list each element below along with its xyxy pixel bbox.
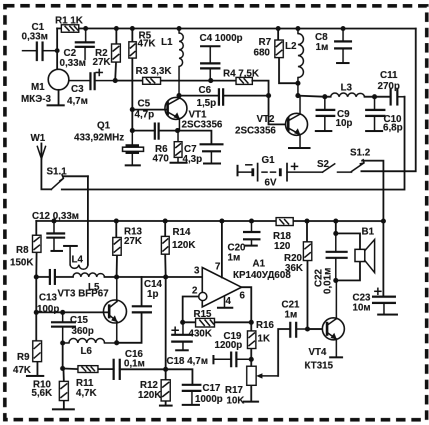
svg-text:L4: L4: [71, 254, 83, 265]
svg-text:470: 470: [153, 153, 170, 164]
wire VT2 collector to filter: [298, 96, 391, 97]
svg-text:R14: R14: [172, 227, 191, 238]
svg-text:1м: 1м: [284, 310, 297, 321]
svg-text:M1: M1: [31, 82, 45, 93]
inductor L6: [63, 338, 117, 356]
resistor R8 150K: [10, 221, 41, 277]
svg-text:47K: 47K: [138, 39, 156, 50]
capacitor C12 0,33м: [32, 211, 79, 251]
node R10/R11 junction: [60, 366, 65, 371]
svg-text:2: 2: [192, 285, 198, 296]
svg-text:R9: R9: [17, 352, 30, 363]
svg-text:R17: R17: [225, 385, 244, 396]
capacitor C2 0,33м: [60, 28, 95, 69]
svg-text:100p: 100p: [37, 304, 59, 315]
wire VT2 base: [269, 96, 288, 125]
resistor R15 430K: [183, 309, 252, 339]
node C12 rail junction: [51, 218, 56, 223]
svg-text:C3: C3: [71, 84, 84, 95]
node C3/R2/R3 junction: [113, 78, 118, 83]
svg-text:0,33м: 0,33м: [60, 58, 86, 69]
resistor R7 680: [254, 29, 298, 84]
capacitor C13 100p: [37, 269, 59, 315]
resistor R1 1K: [55, 15, 83, 32]
svg-text:120K: 120K: [172, 240, 195, 251]
svg-text:R8: R8: [16, 245, 29, 256]
svg-text:10K: 10K: [226, 396, 244, 407]
inductor L1: [161, 28, 183, 95]
resistor R13 27K: [113, 221, 143, 277]
battery G1 6V: [238, 155, 323, 189]
capacitor C15 360p: [51, 312, 94, 343]
node VT1 emitter / R6 junction: [175, 128, 180, 133]
wire C15 rail down: [62, 343, 64, 369]
inductor L3: [331, 83, 365, 97]
switch S1.2: [350, 148, 383, 221]
inductor L5: [73, 273, 105, 293]
svg-text:L3: L3: [341, 83, 353, 94]
capacitor C16 0,1м: [114, 349, 145, 380]
svg-text:G1: G1: [262, 155, 276, 166]
svg-text:C6: C6: [199, 85, 212, 96]
svg-text:1p: 1p: [147, 289, 158, 300]
capacitor C20 1м: [227, 221, 260, 264]
resistor R2 27K: [93, 28, 121, 79]
node R14/pin3 junction: [163, 274, 168, 279]
wire RX supply rail: [36, 220, 383, 222]
resistor R11 4,7K: [76, 366, 98, 399]
svg-text:0,01м: 0,01м: [322, 268, 333, 294]
node R20 rail junction: [304, 218, 309, 223]
capacitor C8 1м: [315, 29, 352, 64]
wire VT3 base: [36, 277, 109, 312]
svg-text:36K: 36K: [285, 263, 303, 274]
svg-text:27K: 27K: [93, 57, 111, 68]
crystal Q1 433,92MHz: [74, 120, 144, 165]
node C1/R1 junction: [55, 48, 60, 53]
svg-text:S1.2: S1.2: [350, 148, 371, 159]
node VT4 collector junction: [333, 278, 338, 283]
capacitor C10 6,8p: [365, 97, 403, 134]
node VT2 base junction: [266, 93, 271, 98]
svg-text:R7: R7: [259, 37, 272, 48]
capacitor C19 1200p: [213, 331, 251, 367]
wire input line y277: [36, 276, 202, 278]
svg-text:4,7м: 4,7м: [67, 96, 88, 107]
svg-text:R4 7,5K: R4 7,5K: [223, 69, 259, 80]
svg-text:1м: 1м: [316, 42, 329, 53]
node C10 junction: [372, 94, 377, 99]
svg-text:VT2: VT2: [257, 114, 276, 125]
svg-text:270p: 270p: [378, 81, 400, 92]
svg-text:R1 1K: R1 1K: [55, 15, 83, 26]
switch S2: [317, 159, 352, 172]
svg-text:1000p: 1000p: [195, 394, 223, 405]
svg-text:C5: C5: [138, 99, 151, 110]
capacitor C1 0,33м: [22, 22, 58, 61]
capacitor C7 4,3p: [183, 144, 224, 165]
svg-text:10м: 10м: [352, 303, 370, 314]
svg-text:680: 680: [254, 48, 271, 59]
transistor VT1 2SC3356: [165, 96, 223, 131]
node R14 rail junction: [163, 218, 168, 223]
svg-text:1200p: 1200p: [214, 340, 242, 351]
speaker B1: [336, 226, 375, 280]
svg-text:4,3p: 4,3p: [183, 154, 203, 165]
capacitor C11 270p: [378, 70, 405, 106]
transistor VT2 2SC3356: [235, 96, 311, 148]
node VT2 collector junction: [295, 93, 300, 98]
node R5 rail junction: [130, 26, 135, 31]
capacitor C17 1000p: [182, 383, 223, 405]
resistor R14 120K: [161, 221, 195, 369]
wire antenna line to L4: [87, 176, 89, 264]
resistor R3 3,3K: [136, 66, 172, 85]
op-amp A1 КР140УД608: [183, 221, 292, 322]
svg-text:4,7K: 4,7K: [76, 388, 97, 399]
svg-text:L6: L6: [80, 346, 92, 357]
svg-text:C4 1000p: C4 1000p: [200, 33, 243, 44]
node pin7 rail junction: [219, 218, 224, 223]
wire top rail: [57, 27, 416, 29]
wire VT1 emitter line: [132, 131, 211, 144]
capacitor C22 0,01м: [313, 221, 347, 294]
svg-text:A1: A1: [252, 259, 265, 270]
svg-text:КР140УД608: КР140УД608: [233, 270, 291, 281]
svg-text:C11: C11: [380, 70, 398, 81]
node VT1 base / R5 junction: [130, 107, 135, 112]
node VT3 collector junction: [114, 274, 119, 279]
svg-text:R16: R16: [256, 320, 275, 331]
capacitor C14 1p: [117, 277, 163, 343]
node C20 rail junction: [249, 218, 254, 223]
node L6 left junction: [60, 340, 65, 345]
svg-text:120: 120: [274, 241, 291, 252]
svg-text:C15: C15: [70, 315, 89, 326]
resistor R6 470: [153, 131, 188, 165]
svg-text:R3 3,3K: R3 3,3K: [136, 66, 172, 77]
svg-text:27K: 27K: [124, 236, 142, 247]
svg-text:Q1: Q1: [97, 120, 111, 131]
capacitor C9 10p: [315, 97, 353, 131]
transistor VT3 BFP67: [57, 277, 126, 343]
node L1 rail junction: [177, 26, 182, 31]
node C15 junction: [60, 310, 65, 315]
svg-text:2SC3356: 2SC3356: [235, 126, 276, 137]
node C4 bottom junction: [208, 78, 213, 83]
microphone M1 МКЭ-3: [21, 69, 90, 105]
node R1 right junction: [83, 26, 88, 31]
node S1.2 rail junction: [381, 219, 386, 224]
svg-text:2SC3356: 2SC3356: [182, 119, 223, 130]
svg-text:S1.1: S1.1: [47, 167, 68, 178]
node R2 rail junction: [114, 26, 119, 31]
node pin2/R15 junction: [180, 320, 185, 325]
svg-text:C17: C17: [202, 383, 221, 394]
capacitor C23 10м: [352, 221, 398, 315]
svg-text:150K: 150K: [10, 257, 33, 268]
node speaker top junction: [333, 231, 338, 236]
svg-text:S2: S2: [317, 159, 330, 170]
svg-text:5,6K: 5,6K: [31, 388, 52, 399]
inductor L2: [285, 29, 303, 96]
svg-text:7: 7: [215, 262, 221, 273]
svg-text:0,1м: 0,1м: [124, 358, 145, 369]
switch S1.1: [47, 167, 88, 190]
svg-text:C18 4,7м: C18 4,7м: [166, 356, 208, 367]
inductor L4: [63, 246, 88, 269]
svg-text:6,8p: 6,8p: [383, 122, 403, 133]
capacitor C3 4,7м: [67, 69, 115, 107]
svg-text:433,92MHz: 433,92MHz: [74, 132, 124, 143]
svg-text:L1: L1: [161, 37, 173, 48]
capacitor C21 1м: [281, 300, 327, 338]
svg-text:6V: 6V: [265, 178, 277, 189]
capacitor C6 1,5p: [179, 85, 269, 109]
wire VT1 base: [132, 110, 167, 131]
node C9 junction: [322, 94, 327, 99]
node R12 junction: [163, 367, 168, 372]
svg-text:120K: 120K: [138, 390, 161, 401]
resistor R10 5,6K: [31, 368, 74, 409]
capacitor C4 1000p: [200, 33, 243, 79]
wire R1 left lead down to M1: [56, 28, 58, 69]
wire antenna feed from C11: [62, 97, 405, 190]
node R7 rail junction: [276, 26, 281, 31]
svg-text:3: 3: [194, 265, 200, 276]
node R8/C13 junction: [34, 274, 39, 279]
node C8 rail junction: [341, 26, 346, 31]
node VT4 base junction: [305, 326, 310, 331]
node VT1 collector junction: [176, 93, 181, 98]
resistor R16 1K: [247, 320, 274, 359]
potentiometer R17 10K: [225, 329, 290, 407]
capacitor C5 4,7p: [135, 99, 159, 140]
node R16/C19/R17 junction: [249, 357, 254, 362]
resistor R18 120: [273, 218, 293, 252]
capacitor C18 4,7м: [166, 322, 208, 367]
node L2/R7 bottom junction: [295, 81, 300, 86]
svg-text:W1: W1: [31, 133, 46, 144]
wire audio line y80.6: [115, 80, 236, 82]
svg-text:L2: L2: [285, 41, 297, 52]
node output/R16 junction: [249, 320, 254, 325]
resistor R5 47K: [129, 28, 156, 109]
wire TX supply return: [361, 29, 415, 172]
node L2 rail junction: [296, 26, 301, 31]
svg-text:VT4: VT4: [308, 347, 327, 358]
node C22 top junction: [333, 218, 338, 223]
svg-text:1K: 1K: [257, 334, 270, 345]
svg-text:10p: 10p: [336, 118, 353, 129]
svg-text:КТ315: КТ315: [304, 361, 333, 372]
wire R11/C16 line: [63, 368, 193, 384]
transistor VT4 КТ315: [304, 280, 344, 371]
antenna W1: [31, 133, 52, 189]
resistor R9 47K: [13, 312, 44, 376]
svg-text:МКЭ-3: МКЭ-3: [21, 94, 51, 105]
wire VT4 base: [307, 328, 327, 330]
node R13 rail junction: [114, 218, 119, 223]
svg-text:6: 6: [239, 291, 245, 302]
svg-text:VT3 BFP67: VT3 BFP67: [57, 288, 109, 299]
svg-text:1м: 1м: [227, 253, 240, 264]
svg-text:1,5p: 1,5p: [197, 98, 217, 109]
resistor R20 36K: [284, 221, 312, 329]
svg-text:R15: R15: [193, 309, 212, 320]
svg-text:0,33м: 0,33м: [22, 32, 48, 43]
svg-text:47K: 47K: [13, 365, 31, 376]
node VT3 emitter junction: [114, 340, 119, 345]
node R9 junction: [34, 310, 39, 315]
svg-text:360p: 360p: [71, 326, 93, 337]
svg-text:4,7p: 4,7p: [135, 110, 155, 121]
resistor R12 120K: [138, 369, 173, 405]
svg-text:C13: C13: [39, 292, 58, 303]
node Q1 top: [130, 128, 135, 133]
svg-text:4: 4: [225, 296, 231, 307]
svg-text:B1: B1: [361, 226, 374, 237]
resistor R4 7,5K: [223, 69, 269, 96]
